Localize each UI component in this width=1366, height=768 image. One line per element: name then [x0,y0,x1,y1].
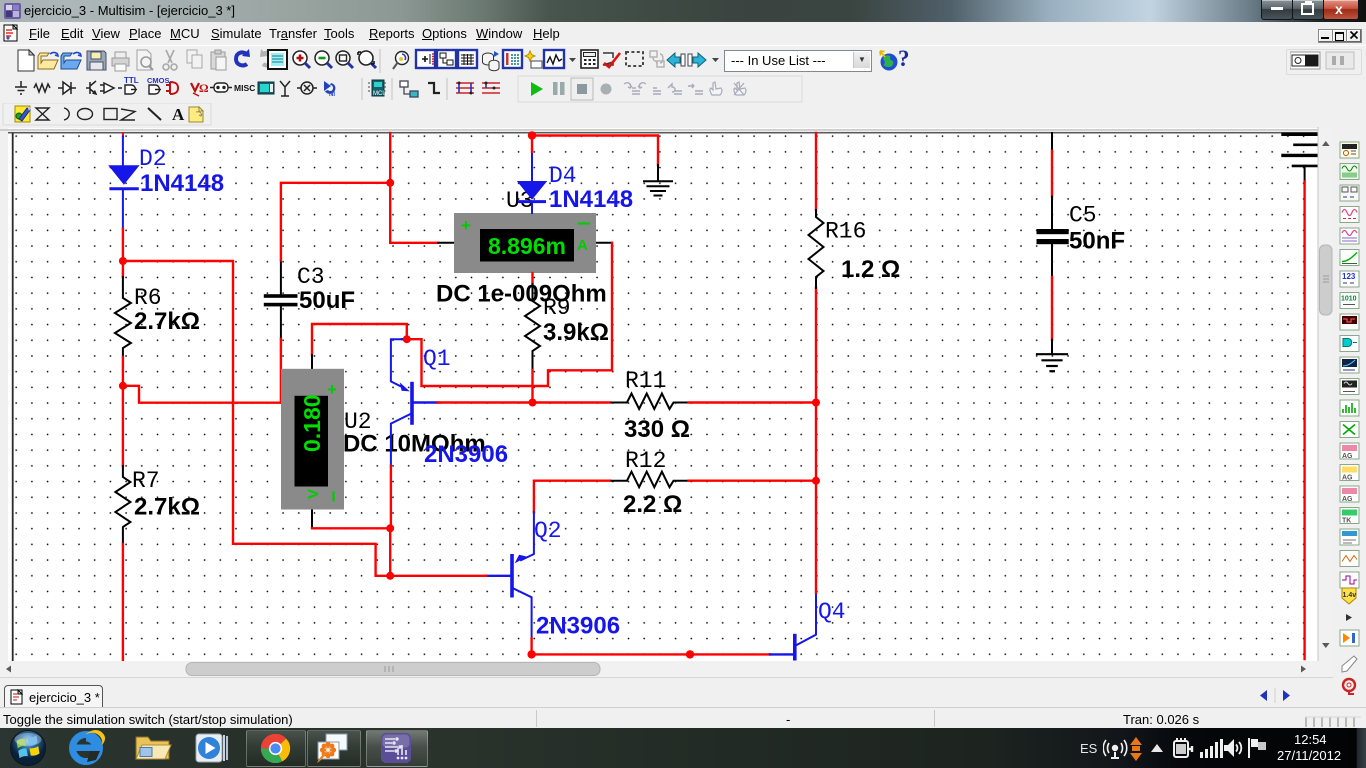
transistor Q2 [486,512,534,638]
value 1.2 Ohm (R16) [841,256,900,283]
value 1N4148 (D2) [140,170,224,197]
new [18,50,34,71]
media player [193,732,229,764]
picture/annotation icon [15,106,31,122]
node J junction (Q2 base net) [386,572,394,580]
arc [64,108,69,120]
comment [189,107,203,122]
element view [503,50,522,68]
label Q1 [423,346,451,372]
label Q4 [818,599,846,625]
power [191,81,209,96]
value 2N3906 (Q1) [424,441,508,468]
multisim button (active) [366,730,428,767]
ellipse [78,109,93,120]
globe [881,54,898,71]
clock [1294,732,1327,747]
value 3.9kOhm (R9) [543,319,609,346]
label U2 [344,409,372,435]
chrome button [246,730,306,767]
diode [58,82,76,94]
RF antenna [280,81,290,96]
svg-text:2.7kΩ: 2.7kΩ [134,308,200,335]
create component [525,51,542,68]
transistor Q1 [391,339,438,466]
tray: speaker [1223,737,1243,759]
svg-text:TTL: TTL [124,76,139,85]
svg-text:330 Ω: 330 Ω [624,416,690,443]
resistor R9 [525,273,540,370]
IE icon [68,730,106,766]
wire: bottom rail [532,653,770,655]
tray: action flag [1246,737,1268,759]
open sample [61,53,81,69]
tray: signal bars [1199,738,1223,759]
wire: R9 bottom to node F [531,370,533,402]
zoom area [336,51,353,68]
record [601,84,612,95]
label R11 [625,368,666,394]
transistor Q4 [770,593,816,661]
hierarchy transform (disabled) [650,51,664,67]
label R12 [625,448,666,474]
misc digital [166,82,178,94]
wire: battery negative down right edge [1303,182,1305,659]
line [148,108,161,120]
svg-text:2N3906: 2N3906 [536,613,620,640]
resistor R6 [115,277,131,357]
svg-text:1.4v: 1.4v [1343,592,1357,599]
wire: Q1 collector red to node I and node J [389,466,392,576]
label C3 [297,264,325,290]
battery V1 (cut by canvas edge) [1283,134,1318,181]
svg-text:R9: R9 [543,295,571,321]
resistor R11 [612,394,692,410]
wire: R12 left corner [534,481,610,512]
wire: D2 anode to top sheet edge (blue lead) [122,133,124,166]
svg-text:MCU: MCU [373,91,387,97]
electromechanical [297,82,317,94]
MCU chip [368,80,387,97]
svg-text:+: + [327,380,337,399]
CMOS [147,76,170,94]
wire: R12 to right rail [689,480,817,482]
design toolbox [268,50,287,69]
back annotate [667,53,685,67]
hierarchy icons [400,81,418,97]
svg-text:8.896m: 8.896m [488,233,566,259]
svg-text:A: A [577,237,588,254]
svg-text:123: 123 [1342,272,1356,281]
capture area [626,52,643,66]
undo [236,52,248,65]
polyline [121,109,135,120]
label R6 [134,285,162,311]
wire: top rail to ground GND1 [532,136,658,166]
ladder [428,83,440,93]
wire: node E to U2 plus lead [312,324,407,355]
capacitor C3 [264,260,298,339]
copy (disabled) [187,50,202,68]
wire: node A to Q2 base net (left loop) [123,261,390,576]
wire: D4 anode to top rail [531,136,533,153]
wire: R6 bottom to node B [122,357,124,386]
bus icon 1 [456,82,474,95]
node K junction (bottom rail left) [527,650,535,658]
svg-text:1010: 1010 [1341,296,1357,303]
node E junction (Q1 emitter net) [403,335,411,343]
svg-text:NI: NI [329,92,335,98]
hierarchy Pb [437,50,456,68]
tray: ES [1080,741,1097,756]
svg-text:3.9kΩ: 3.9kΩ [543,319,609,346]
zoom fit [358,51,376,68]
vertical scrollbar [1318,127,1334,661]
svg-text:50nF: 50nF [1069,228,1125,255]
wire: U2 minus lead to node I [312,527,390,529]
grapher [544,50,564,68]
svg-text:+: + [461,216,471,235]
node F junction (R9/R11 net) [529,399,537,407]
svg-text:AG: AG [1342,453,1353,460]
svg-text:2.2 Ω: 2.2 Ω [623,491,682,518]
stop boxed [571,78,593,100]
preview (disabled) [137,50,153,70]
wire: R7 bottom off sheet [122,544,124,661]
svg-text:DC 1e-009Ohm: DC 1e-009Ohm [436,281,607,308]
database [483,51,500,71]
open [38,53,58,69]
node H junction (right rail / R12) [812,477,820,485]
svg-text:TK: TK [1342,518,1351,525]
svg-text:2N3906: 2N3906 [424,441,508,468]
show desktop [1356,728,1366,768]
save [87,51,106,70]
forward annotate [688,53,706,67]
svg-text:0.180: 0.180 [299,394,325,452]
value 1N4148 (D4) [549,186,633,213]
svg-text:R11: R11 [625,368,666,394]
print (disabled) [112,52,129,71]
value DC 1e-009Ohm (U3) [436,281,607,308]
tray: power plug [1172,736,1196,761]
svg-text:R12: R12 [625,448,666,474]
source group (ground) [15,81,27,94]
node B junction [119,382,127,390]
wire: D2 cathode to node A [122,229,124,278]
multimeter U2 [281,355,344,528]
svg-text:MISC: MISC [234,83,255,93]
value 330 Ohm (R11) [624,416,690,443]
capacitor C5 [1037,133,1069,277]
value 50nF (C5) [1069,228,1125,255]
bus icon 2 [482,82,500,94]
wire: Q2 base to left net [390,575,486,577]
start orb [9,729,47,767]
step icons (disabled) [624,83,703,94]
svg-text:1.2 Ω: 1.2 Ω [841,256,900,283]
value 2.7kOhm (R6) [134,308,200,335]
resistor R7 [115,466,130,544]
cut (disabled) [163,50,177,70]
redo (disabled) [262,52,274,65]
tray: network [1103,736,1145,762]
resistor R16 [809,210,824,288]
paste (disabled) [211,50,226,70]
svg-text:2.7kΩ: 2.7kΩ [134,494,200,521]
svg-text:AG: AG [1342,475,1353,482]
hand icons (disabled) [710,82,746,95]
svg-text:Q1: Q1 [423,346,451,372]
label R7 [132,468,160,494]
Z polygon [36,108,49,120]
node A junction [119,257,127,265]
run switch buttons [1286,49,1362,75]
zoom out [315,51,332,68]
label C5 [1069,203,1097,229]
value 2.7kOhm (R7) [134,494,200,521]
svg-text:Q4: Q4 [818,599,846,625]
wire: right rail (Q4 emitter up to R16) [815,133,817,593]
wire: Q2 collector to bottom rail [530,638,532,654]
node D junction (top rail) [528,131,536,139]
wire: Q1 base to R11 rail [438,401,611,403]
wire: C3 bottom lead [280,339,282,403]
explorer folder [134,733,173,763]
svg-text:AG: AG [1342,496,1353,503]
svg-text:D2: D2 [139,146,167,172]
ground GND1 [644,165,672,196]
node I junction (U2 minus net) [386,524,394,532]
tray: expand triangle [1148,742,1166,754]
label R9 [543,295,571,321]
svg-text:A: A [172,105,185,124]
svg-text:V: V [305,489,322,499]
label U3 [506,188,534,214]
svg-text:1N4148: 1N4148 [549,186,633,213]
value DC 10MOhm (U2) [343,431,486,458]
wire: R11 to right rail [689,401,817,403]
svg-text:R16: R16 [825,219,866,245]
play [531,82,543,96]
value 50uF (C3) [299,287,355,314]
transistor [86,81,96,94]
label Q2 [534,518,562,544]
label R16 [825,219,866,245]
spreadsheet [458,50,477,68]
wire: C5 bottom to ground GND2 [1051,277,1053,354]
wire: U3 minus lead to Q1 emitter net [402,243,612,386]
annotate dropdown [712,58,719,62]
diode D4 [517,152,547,213]
schematic sheet border [8,133,1318,661]
grapher dropdown [569,58,576,62]
probe magnifier [393,52,409,70]
node L junction (bottom rail mid) [686,650,694,658]
svg-text:50uF: 50uF [299,287,355,314]
resistor R12 [612,472,692,488]
label D4 [549,163,577,189]
svg-text:Q2: Q2 [534,518,562,544]
diode D2 [108,165,139,228]
svg-text:CMOS: CMOS [147,76,170,85]
rect [104,109,117,120]
node C junction [386,179,394,187]
misc box [210,83,232,92]
postprocess calc [581,50,598,68]
label D2 [139,146,167,172]
wire: node C up off sheet [389,133,391,183]
sim group frame [518,76,802,102]
svg-text:C5: C5 [1069,203,1097,229]
photo viewer button [307,730,361,767]
wire: node B jog to C3 bottom [123,386,281,403]
wire: node C to U3 plus lead [390,183,438,243]
value 2N3906 (Q2) [536,613,620,640]
zoom in [293,51,310,68]
basic (resistor) [34,84,50,92]
svg-text:Ω: Ω [199,81,209,95]
wire: C3 top to node C [281,183,390,260]
indicator [258,82,274,94]
multimeter U3 [438,213,612,273]
In Use List combo [724,50,872,72]
NI component [324,81,335,98]
pause [553,82,565,95]
postprocessor [416,50,435,68]
analog [100,83,122,93]
ground GND2 [1037,354,1067,371]
value 2.2 Ohm (R12) [623,491,682,518]
TTL [124,76,139,94]
svg-text:1N4148: 1N4148 [140,170,224,197]
ERC check [603,53,620,67]
svg-text:R7: R7 [132,468,160,494]
node G junction (right rail / R11) [812,399,820,407]
wire: node B down to R7 [122,386,124,466]
